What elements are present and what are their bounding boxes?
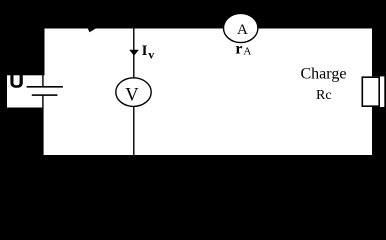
svg-text:I: I — [142, 43, 148, 59]
battery U label white box — [7, 75, 45, 107]
wire voltmeter top branch — [133, 29, 134, 79]
battery U value label — [10, 72, 22, 88]
voltmeter V1 body — [116, 78, 151, 107]
battery B1 long plate — [27, 86, 63, 88]
svg-text:Rc: Rc — [316, 88, 332, 103]
svg-text:Charge: Charge — [301, 65, 347, 82]
wire voltmeter bottom branch — [133, 106, 134, 156]
svg-text:v: v — [148, 47, 154, 61]
svg-text:A: A — [237, 22, 248, 38]
load resistor Rc box — [362, 77, 379, 106]
svg-text:A: A — [243, 46, 251, 58]
svg-text:V: V — [125, 86, 139, 106]
battery B1 short plate — [32, 94, 58, 96]
wire top arrowhead (current direction) — [86, 25, 96, 33]
circuit loop interior (white canvas; its edges are the circuit wires) — [45, 29, 373, 156]
arrowhead Iv current into voltmeter — [129, 50, 139, 56]
svg-text:r: r — [235, 41, 242, 58]
wire battery bottom lead — [42, 96, 43, 109]
wire left branch lower segment (edge against background) — [44, 108, 45, 156]
load resistor Rc white backing — [362, 76, 385, 107]
wire battery top lead — [42, 75, 43, 87]
ammeter A1 body — [224, 13, 258, 42]
